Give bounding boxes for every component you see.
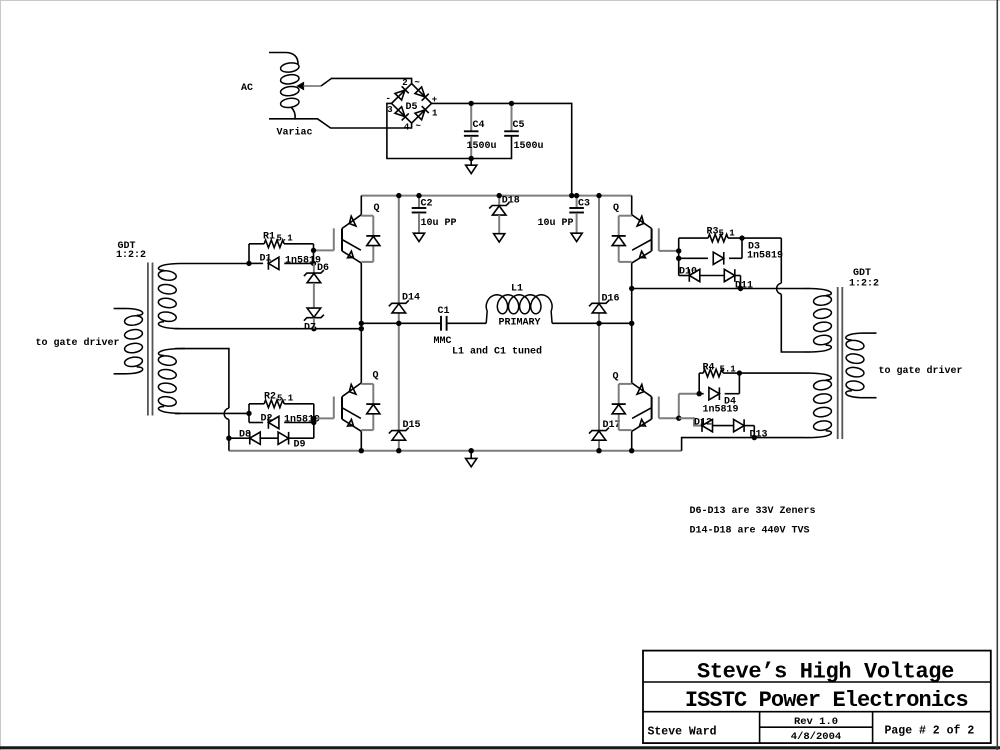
svg-text:~: ~	[415, 78, 420, 88]
R1 labels	[263, 232, 293, 244]
svg-text:Variac: Variac	[277, 127, 313, 139]
svg-text:R3: R3	[707, 227, 719, 238]
GDT left secondary bottom winding	[158, 349, 185, 414]
inductor L1 primary	[486, 295, 552, 324]
svg-text:D6-D13 are 33V Zeners: D6-D13 are 33V Zeners	[690, 506, 816, 517]
capacitor C4	[464, 103, 479, 158]
node winding-zener junction	[226, 436, 231, 441]
right emitter rail	[632, 288, 803, 290]
svg-text:-: -	[386, 94, 391, 104]
svg-text:D13: D13	[750, 430, 768, 441]
schottky D1	[249, 244, 314, 270]
svg-text:D12: D12	[694, 418, 712, 429]
svg-text:D14: D14	[402, 293, 420, 304]
svg-text:R1: R1	[263, 232, 275, 243]
left bridge leg wire	[398, 196, 400, 451]
emitter rail junctions	[629, 286, 743, 291]
capacitor C1	[441, 316, 447, 331]
svg-text:1: 1	[432, 109, 438, 119]
svg-text:5.1: 5.1	[277, 234, 294, 244]
C5 labels	[513, 120, 544, 152]
C1 labels	[434, 306, 452, 347]
resistor R3	[679, 234, 782, 242]
TVS D14	[389, 300, 409, 313]
capacitor C3	[569, 196, 584, 242]
svg-text:2: 2	[402, 78, 407, 88]
D10 label	[679, 267, 697, 278]
title text 2	[685, 688, 968, 713]
svg-text:C2: C2	[421, 199, 433, 210]
zener D6	[304, 263, 324, 282]
svg-text:4/8/2004: 4/8/2004	[791, 731, 841, 743]
Q label bottom-right	[613, 372, 619, 383]
GDT right secondary top winding	[803, 289, 832, 353]
TVS D17	[589, 428, 609, 441]
R3 labels	[707, 227, 736, 239]
svg-text:MMC: MMC	[434, 336, 452, 347]
D16 label	[602, 294, 620, 305]
D7 label	[304, 323, 316, 334]
page cell	[885, 725, 975, 738]
to gate driver label left	[36, 337, 120, 349]
svg-text:1:2:2: 1:2:2	[849, 279, 879, 290]
resistor R2	[249, 400, 314, 408]
D12 label	[694, 418, 712, 429]
GDT right secondary bottom winding	[803, 373, 832, 438]
zener D12	[679, 418, 734, 432]
svg-text:Page # 2 of 2: Page # 2 of 2	[885, 725, 975, 738]
capacitor C2	[412, 196, 427, 242]
svg-text:C3: C3	[578, 199, 590, 210]
zener D7	[304, 283, 324, 329]
C2 labels	[421, 199, 457, 230]
Variac label	[277, 127, 313, 139]
IGBT Q top-left	[334, 196, 381, 383]
svg-text:D2: D2	[261, 414, 273, 425]
GDT left secondary top winding	[158, 264, 249, 329]
note TVS	[690, 526, 810, 537]
svg-text:4: 4	[404, 123, 410, 133]
svg-text:Steve Ward: Steve Ward	[648, 726, 717, 739]
IGBT Q bottom-left	[334, 383, 381, 451]
svg-text:D14-D18 are 440V TVS: D14-D18 are 440V TVS	[690, 526, 810, 537]
mid rail bridge section	[361, 322, 631, 324]
wire winding to R2 node	[175, 411, 252, 416]
svg-text:D11: D11	[735, 281, 753, 292]
svg-text:D16: D16	[602, 294, 620, 305]
svg-text:AC: AC	[241, 83, 253, 94]
svg-text:1n5819: 1n5819	[703, 405, 739, 416]
resistor R4	[699, 369, 803, 377]
svg-text:L1: L1	[511, 284, 523, 295]
svg-text:C1: C1	[438, 306, 450, 317]
wire gate bottom-left	[311, 416, 334, 426]
wire gate bottom-right	[659, 370, 742, 421]
svg-text:1n5819: 1n5819	[747, 251, 783, 262]
D11 label	[735, 281, 753, 292]
wire gate top-right	[659, 235, 745, 261]
zener D11	[724, 269, 740, 288]
title block	[643, 651, 991, 744]
D14 label	[402, 293, 420, 304]
D4 labels	[703, 397, 739, 416]
svg-text:R4: R4	[703, 363, 715, 374]
svg-text:5.1: 5.1	[719, 229, 736, 239]
GDT right core	[838, 287, 843, 439]
mid rail junctions	[311, 321, 634, 332]
date cell	[791, 731, 841, 743]
zener D9	[278, 432, 314, 445]
D13 label	[750, 430, 768, 441]
zener D10	[679, 269, 725, 282]
tuning note	[452, 346, 542, 358]
svg-text:3: 3	[387, 105, 392, 115]
svg-text:to gate driver: to gate driver	[879, 365, 963, 377]
svg-text:to gate driver: to gate driver	[36, 337, 120, 349]
resistor R1	[249, 240, 314, 248]
TVS D16	[589, 300, 609, 313]
svg-text:D10: D10	[679, 267, 697, 278]
svg-text:Q: Q	[613, 203, 619, 214]
svg-text:PRIMARY: PRIMARY	[499, 318, 541, 329]
D6 label	[317, 263, 329, 274]
schottky D4	[699, 373, 739, 400]
bottom rail right step	[632, 438, 803, 451]
bottom emitter rail	[229, 450, 632, 452]
D3 labels	[747, 242, 783, 262]
D18 label	[502, 196, 520, 207]
AC label	[241, 83, 253, 94]
D5 pin labels	[386, 78, 439, 133]
wire R3 row to right winding with hop	[777, 238, 803, 352]
wire wiper to bridge pin2	[304, 78, 412, 86]
wire gate top-left	[246, 248, 333, 266]
svg-text:5.1: 5.1	[720, 365, 737, 375]
top DC rail	[361, 195, 631, 197]
TVS D15	[389, 428, 409, 441]
R2 labels	[264, 392, 294, 404]
svg-text:D5: D5	[406, 102, 418, 113]
C3 labels	[538, 199, 591, 230]
svg-text:Q: Q	[613, 372, 619, 383]
author cell	[648, 726, 717, 739]
D1 labels	[260, 254, 322, 267]
bridge rectifier D5	[392, 84, 432, 124]
svg-text:D15: D15	[403, 420, 421, 431]
GDT right primary winding	[845, 333, 876, 398]
top rail junctions	[396, 193, 602, 198]
svg-text:5.1: 5.1	[277, 394, 294, 404]
svg-text:D7: D7	[304, 323, 316, 334]
wire pin3 to negative loop	[387, 103, 512, 158]
svg-text:~: ~	[416, 122, 421, 132]
svg-text:Q: Q	[374, 203, 380, 214]
svg-text:Q: Q	[373, 371, 379, 382]
svg-text:D9: D9	[294, 440, 306, 451]
TVS D18	[489, 196, 509, 243]
svg-text:C5: C5	[513, 120, 525, 131]
svg-text:GDT: GDT	[853, 268, 871, 279]
svg-text:D1: D1	[260, 254, 272, 265]
D8 label	[239, 430, 251, 441]
svg-text:C4: C4	[473, 120, 485, 131]
svg-text:1500u: 1500u	[514, 141, 544, 152]
Q label bottom-left	[373, 371, 379, 382]
GDT left core	[148, 263, 153, 416]
Q label top-left	[374, 203, 380, 214]
R4 labels	[703, 363, 737, 375]
svg-text:D8: D8	[239, 430, 251, 441]
svg-text:Steve’s High Voltage: Steve’s High Voltage	[697, 660, 954, 685]
node positive rail junctions	[469, 101, 515, 161]
L1 labels	[499, 284, 541, 329]
ground bottom rail	[466, 451, 477, 467]
D2 labels	[261, 414, 321, 426]
zener D8	[229, 432, 278, 445]
zener D13	[734, 419, 755, 437]
D17 label	[603, 420, 621, 431]
D9 label	[294, 440, 306, 451]
svg-text:D18: D18	[502, 196, 520, 207]
svg-text:1500u: 1500u	[467, 141, 497, 152]
wire winding top lead down with hop	[175, 349, 229, 451]
svg-text:10u PP: 10u PP	[538, 218, 574, 229]
bottom rail junctions	[359, 435, 757, 454]
svg-text:Rev 1.0: Rev 1.0	[794, 716, 838, 728]
variac T1	[269, 53, 300, 119]
C4 labels	[467, 120, 497, 152]
IGBT Q top-right	[612, 196, 659, 383]
ground below C4	[466, 159, 477, 174]
schottky D2	[249, 404, 314, 438]
to gate driver label right	[879, 365, 963, 377]
schottky D3	[679, 238, 742, 275]
GDT right labels	[849, 268, 879, 290]
svg-text:10u PP: 10u PP	[421, 218, 457, 229]
GDT left labels	[116, 241, 146, 261]
note zeners	[690, 506, 816, 517]
svg-text:ISSTC Power Electronics: ISSTC Power Electronics	[685, 688, 968, 713]
variac wiper arrow	[298, 83, 304, 90]
D5 label	[406, 102, 418, 113]
svg-text:R2: R2	[264, 392, 276, 403]
title text 1	[697, 660, 954, 685]
Q label top-right	[613, 203, 619, 214]
IGBT Q bottom-right	[612, 383, 659, 451]
wire variac bottom to bridge pin4	[294, 119, 412, 128]
GDT left primary winding	[114, 309, 143, 374]
mid rail left lead	[175, 328, 361, 330]
rev cell	[794, 716, 838, 728]
right bridge leg wire	[598, 196, 600, 451]
svg-text:1:2:2: 1:2:2	[116, 250, 146, 261]
D15 label	[403, 420, 421, 431]
capacitor C5	[504, 103, 519, 135]
svg-text:L1 and C1 tuned: L1 and C1 tuned	[452, 346, 542, 358]
svg-text:D6: D6	[317, 263, 329, 274]
wire pin1 positive rail	[432, 103, 572, 195]
